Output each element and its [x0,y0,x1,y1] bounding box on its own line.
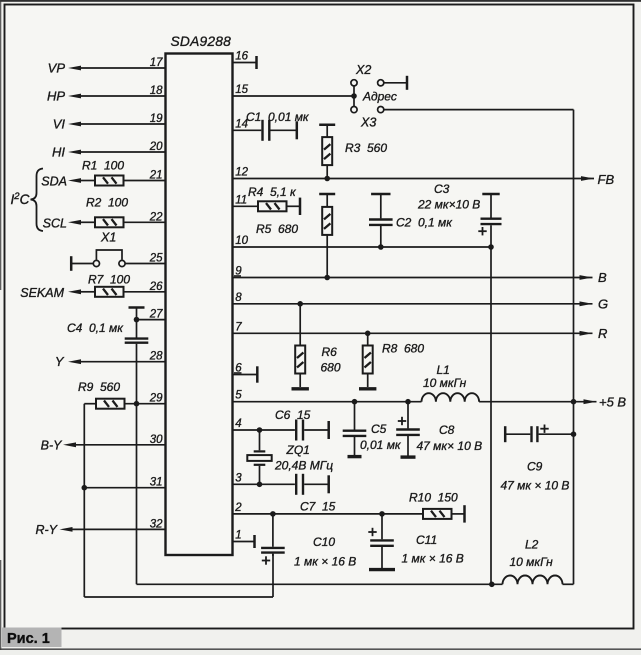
svg-text:Адрес: Адрес [362,90,397,104]
label C8 value [417,439,483,453]
label R [598,326,607,341]
svg-text:SCL: SCL [43,216,67,230]
connector X3 left bottom contact [351,107,357,113]
svg-text:R3 560: R3 560 [345,141,387,155]
svg-text:680: 680 [321,361,341,375]
terminal bar R6 bottom [292,387,309,390]
capacitor C7 [296,474,303,495]
label R3 560 [345,141,387,155]
pin 22 number [149,211,163,223]
wire C2 top lead [380,194,382,218]
label X1 [100,231,116,245]
svg-text:FB: FB [598,172,615,187]
pin 17 number [150,57,163,69]
pin 11 number [235,194,247,206]
connector X1 right contact [119,260,125,266]
label R8 680 [382,342,424,356]
brace I2C [31,169,44,232]
terminal bar R5 top [319,193,335,196]
plus C9 [540,425,548,433]
wire pin21 to R1 [124,180,166,182]
stub above pin27 [136,308,138,320]
wire pin12 FB [233,178,595,180]
svg-text:VI: VI [53,117,66,132]
svg-text:10 мкГн: 10 мкГн [423,376,467,390]
pin 21 number [149,170,163,182]
capacitor C4 [125,339,149,343]
wire pin31 [84,487,165,489]
connector X2 left top contact [351,80,357,86]
svg-text:SEKAM: SEKAM [20,286,64,300]
svg-text:B-Y: B-Y [41,439,64,453]
terminal bar C1 [296,121,299,139]
wire X2 to bar [384,82,407,84]
label C2 0,1 mk [396,216,453,230]
label C10 [313,535,335,549]
arrow FB [581,176,594,181]
pin 9 underline [234,275,241,277]
wire R6 bottom lead [299,374,301,388]
wire pin15 to X2 [233,95,355,97]
svg-text:HP: HP [47,89,65,104]
svg-text:SDA: SDA [41,175,67,189]
wire R2 to SCL arrow [80,221,95,223]
pin 26 number [149,281,163,293]
wire R4 to bar [287,205,300,207]
inductor L1 [422,393,480,402]
arrow +5V [584,399,597,404]
scan edge top [0,0,641,2]
label I2C [11,191,30,207]
wire pin26 to R7 [124,291,166,293]
wire pin5 +5V [233,401,422,403]
terminal bar R10 [463,505,466,522]
node V4 C9 junction [571,431,577,437]
label C11 [416,533,437,547]
wire ZQ1 bottom lead [259,466,261,484]
wire R5 top lead [326,194,328,207]
label R2 100 [86,196,128,210]
terminal bar C7 [327,475,330,493]
figure label box [2,628,62,648]
wire pin32 R-Y [72,528,166,530]
node pin27 junction [134,317,140,323]
wire R7 to SEKAM arrow [80,291,95,293]
resistor R8 [363,346,373,374]
wire pin20 HI [80,151,166,153]
plus C8 [398,417,406,425]
svg-text:G: G [598,297,608,312]
arrow Y [68,359,81,364]
resistor R3 [322,137,332,165]
connector X1 left contact [93,260,99,266]
terminal bar R8 bottom [359,387,376,390]
wire pin29 to R9 [125,403,166,405]
wire C5 bottom lead [354,437,356,455]
pin 2 number [234,502,242,514]
label C11 value [402,552,464,566]
arrow HP [68,94,81,99]
svg-text:8: 8 [235,292,242,304]
node V4 +5V junction [571,399,577,405]
pin 12 number [235,167,248,179]
pin 29 number [149,393,163,405]
wire pin22 to R2 [124,221,166,223]
wire C11 bottom lead [381,547,383,568]
scan edge left upper [0,0,1,290]
capacitor C1 [263,120,270,141]
node R5 pin9 junction [324,275,330,281]
wire R9 to left vertical [84,403,96,405]
svg-text:R6: R6 [322,345,338,359]
svg-text:22 мк×10 В: 22 мк×10 В [417,198,480,212]
label FB [598,172,615,187]
wire C4 down vertical V2 [136,344,138,585]
pin 31 number [150,477,163,489]
svg-text:0,01 мк: 0,01 мк [360,438,402,452]
resistor R6 [295,346,305,374]
terminal bar R4 [299,198,302,215]
svg-text:R9 560: R9 560 [78,380,120,394]
pin 28 number [149,351,163,363]
pin 3 number [235,472,242,484]
pin 6 underline [234,372,242,374]
IC U1 SDA9288 body [166,54,233,556]
resistor R4 [258,201,287,211]
pin 18 number [150,85,163,97]
label C4 0,1 mk [67,321,124,335]
wire pin16 stub [233,62,257,64]
wire pin11 to R4 [233,205,259,207]
svg-text:7: 7 [235,321,242,333]
label +5V [599,395,626,410]
label C6 15 [275,408,311,422]
label G [598,297,608,312]
label R4 5,1 k [248,185,297,199]
arrow B [580,275,593,280]
wire R1 to SDA arrow [80,180,95,182]
wire pin28 Y [80,361,166,363]
arrow VI [68,122,81,127]
wire C6 to bar [304,429,328,431]
svg-text:R5 680: R5 680 [256,222,298,236]
wire bus B horizontal [84,596,273,598]
svg-text:1 мк × 16 В: 1 мк × 16 В [294,555,356,569]
capacitor C3 [481,219,502,224]
arrow G [580,301,593,306]
resistor R5 [322,207,332,235]
node C10 pin2 junction [270,511,276,517]
pin 6 number [235,363,242,375]
wire X2 contacts vertical [353,86,355,107]
svg-text:L1: L1 [437,363,450,377]
wire R3 top lead [326,125,328,137]
label VP [48,61,66,76]
wire pin7 R [233,332,593,334]
label SEKAM [20,286,64,300]
svg-text:C6 15: C6 15 [275,408,311,422]
svg-text:C7 15: C7 15 [300,500,336,514]
wire C3 down vertical V3 [490,225,492,584]
svg-text:X1: X1 [100,231,116,245]
label C8 [439,423,455,437]
svg-text:ZQ1: ZQ1 [286,443,310,457]
wire L2 to right vertical [563,583,574,585]
connector X2 right top contact [378,80,384,86]
wire C10 top lead [272,514,274,547]
label X3 [360,116,376,130]
node R6 pin8 junction [297,301,303,307]
wire pin3 to C7 [233,483,295,485]
wire C3 top lead [490,194,492,218]
svg-text:C10: C10 [313,535,335,549]
wire pin6 stub [233,374,257,376]
wire R10 to bar [452,513,465,515]
wire X3 to right vertical [384,109,574,111]
wire C7 to bar [304,483,328,485]
label C5 value [360,438,402,452]
svg-text:R-Y: R-Y [35,523,58,537]
wire pin25 to X1 [125,263,165,265]
label Y [55,354,65,369]
label HP [47,89,65,104]
node ZQ1 pin4 junction [257,427,263,433]
arrow VP [68,66,81,71]
wire pin14 to C1 [233,129,262,131]
label VI [53,117,66,132]
wire C9 right lead [539,433,574,435]
resistor R1 [95,176,124,186]
pin 10 number [235,235,248,247]
label B-Y [41,439,64,453]
node C5 junction [352,399,358,405]
node C2 pin10 junction [378,244,384,250]
terminal bar X1 [70,256,73,271]
svg-text:C9: C9 [527,460,543,474]
terminal bar C8 bottom [401,455,416,458]
svg-text:5: 5 [235,390,242,402]
plus C11 [368,528,376,536]
svg-text:I2C: I2C [11,191,30,207]
pin 9 number [235,266,242,278]
label C7 15 [300,500,336,514]
label C1 0,01 mk [246,110,310,124]
wire ZQ1 top lead [259,430,261,450]
node pin31 junction [82,485,88,491]
arrow SEKAM [68,289,81,294]
svg-text:VP: VP [48,61,66,76]
plus C10 [262,556,270,564]
node R3 pin12 junction [324,176,330,182]
svg-text:C8: C8 [439,423,455,437]
pin 32 number [150,518,163,530]
terminal bar C5 bottom [348,455,362,458]
pin 7 number [235,321,242,333]
resistor R10 [423,509,452,519]
label SDA [41,175,67,189]
label C5 [371,422,387,436]
terminal bar pin6 [256,366,259,382]
inductor L2 [503,575,563,584]
svg-text:R: R [598,326,607,341]
node C8 junction [405,399,411,405]
pin 14 number [235,118,248,130]
wire left vertical V1 [83,404,85,597]
svg-text:R2 100: R2 100 [86,196,128,210]
wire pin17 VP [80,67,166,69]
capacitor C6 [296,420,303,441]
resistor R7 [95,287,124,297]
svg-text:1: 1 [235,530,241,542]
svg-text:16: 16 [235,51,248,63]
svg-text:10: 10 [235,235,248,247]
label C9 [527,460,543,474]
capacitor C2 [369,220,393,225]
svg-text:R4 5,1 к: R4 5,1 к [248,185,297,199]
svg-text:47 мк × 10 В: 47 мк × 10 В [501,479,570,493]
label X2 [355,63,371,77]
svg-text:C1 0,01 мк: C1 0,01 мк [246,110,310,124]
svg-text:C2 0,1 мк: C2 0,1 мк [396,216,453,230]
svg-text:Рис. 1: Рис. 1 [7,631,50,647]
wire C8 top lead [407,402,409,429]
capacitor C5 [343,431,367,436]
node C3 pin10 junction [488,244,494,250]
resistor R9 [96,399,125,409]
wire R5 bottom lead [326,235,328,278]
pin 16 number [235,51,248,63]
wire R8 top lead [367,333,369,345]
wire C10 bottom lead [272,554,274,556]
svg-text:20,4В МГц: 20,4В МГц [274,459,333,473]
wire C11 top lead [381,514,383,539]
arrow R [580,331,593,336]
svg-text:+5 В: +5 В [599,395,626,410]
svg-text:R10 150: R10 150 [409,491,458,505]
terminal bar C2 top [371,193,390,196]
wire bus A horizontal [137,583,503,585]
plus C3 [478,227,486,235]
pin 1 number [235,530,241,542]
wire pin1 stub [233,541,255,543]
quartz ZQ1 top plate [254,450,266,452]
node bus A / L2 junction [489,582,495,588]
svg-text:12: 12 [235,167,248,179]
wire C8 bottom lead [407,436,409,456]
wire pin18 HP [80,95,166,97]
svg-text:R8 680: R8 680 [382,342,424,356]
terminal bar C11 bottom [369,568,395,571]
wire pin2 [233,513,424,515]
pin 5 number [235,390,242,402]
wire C9 left lead [505,433,530,435]
svg-text:47 мк× 10 В: 47 мк× 10 В [417,439,483,453]
wire pin4 to C6 [233,429,295,431]
capacitor C9 [532,426,538,442]
label R6 [322,345,338,359]
capacitor C10 [261,548,285,553]
resistor R2 [95,217,124,227]
figure label text [7,631,50,647]
svg-text:C4 0,1 мк: C4 0,1 мк [67,321,124,335]
label L2 value [510,555,554,569]
svg-text:C11: C11 [416,533,437,547]
wire pin27 [137,319,166,321]
wire X1 to bar [72,263,94,265]
svg-text:1 мк × 16 В: 1 мк × 16 В [402,552,464,566]
pin 30 number [150,434,163,446]
label L1 value [423,376,467,390]
pin 15 number [235,84,248,96]
node ZQ1 pin3 junction [257,482,263,488]
arrow R-Y [60,527,73,532]
label R7 100 [88,273,130,287]
wire right vertical V4 [573,110,575,585]
wire bus B up to C10 [272,554,274,597]
capacitor C8 [396,430,420,435]
capacitor C11 [370,540,394,545]
svg-text:10 мкГн: 10 мкГн [510,555,554,569]
arrow B-Y [63,442,76,447]
label C3 [434,182,450,196]
svg-text:R1 100: R1 100 [82,159,124,173]
svg-text:C3: C3 [434,182,450,196]
svg-text:4: 4 [235,418,241,430]
label R9 560 [78,380,120,394]
pin 4 number [235,418,241,430]
wire R6 top lead [299,304,301,346]
wire pin30 B-Y [75,444,166,446]
pin 27 number [149,309,163,321]
arrow SCL [68,220,81,225]
pin 19 number [150,113,163,125]
label ZQ1 [286,443,310,457]
terminal bar C6 [327,421,330,439]
svg-text:SDA9288: SDA9288 [171,34,232,49]
pin 25 number [149,253,163,265]
connector X3 right bottom contact [378,107,384,113]
terminal bar X2 [406,76,409,90]
pin 8 number [235,292,242,304]
label R10 150 [409,491,458,505]
wire L1 to +5V arrow [479,401,596,403]
terminal bar above pin27 [129,306,145,309]
node C11 pin2 junction [379,511,385,517]
label L1 [437,363,450,377]
label C9 value [501,479,570,493]
arrow HI [68,150,81,155]
wire C5 top lead [354,402,356,430]
label C10 value [294,555,356,569]
svg-text:Y: Y [55,354,65,369]
wire pin19 VI [80,123,166,125]
svg-text:2: 2 [234,502,242,514]
svg-text:15: 15 [235,84,248,96]
label L2 [525,538,539,552]
label R5 680 [256,222,298,236]
wire R3 bottom lead [326,165,328,178]
jumper X1 [96,250,122,260]
node pin29 junction [134,401,140,407]
svg-text:3: 3 [235,472,242,484]
arrow SDA [68,178,81,183]
node X2 junction [351,93,357,99]
terminal bar pin16 [255,56,258,69]
terminal bar C3 top [482,193,499,196]
wire R8 bottom lead [367,374,369,388]
wire C2 bottom lead [380,226,382,247]
scan edge bottom [0,648,641,650]
